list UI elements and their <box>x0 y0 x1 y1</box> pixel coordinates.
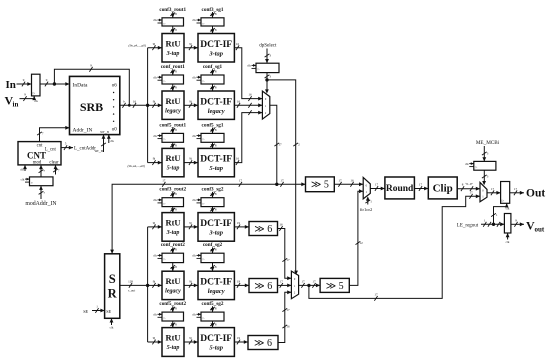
svg-text:16: 16 <box>236 157 240 161</box>
svg-text:16: 16 <box>286 325 290 329</box>
wire dpSelect into register <box>266 49 268 64</box>
block RtU 3-tap top <box>162 34 184 63</box>
wire Out output <box>510 192 524 194</box>
register conf5_sg2 <box>201 312 224 321</box>
svg-text:DCT-IF: DCT-IF <box>200 97 232 107</box>
register conf5_rout2 <box>162 312 184 321</box>
block DCT-IF 3-tap top <box>198 34 234 63</box>
svg-text:3-tap: 3-tap <box>166 230 180 236</box>
wire conf_rout2 into register <box>172 247 174 253</box>
register conf3_rout1 <box>162 18 184 26</box>
svg-text:19: 19 <box>237 221 241 225</box>
svg-text:16: 16 <box>236 42 240 46</box>
wire register conf5_rout1 to RtU <box>172 142 174 148</box>
wire conf5_sg1 into register <box>212 128 214 134</box>
wire DCT-IF 3-tap top to mux <box>234 48 262 99</box>
block shifter >>6 B3 <box>248 336 278 350</box>
block DCT-IF 5-tap top <box>198 148 234 176</box>
svg-text:clear: clear <box>49 160 59 165</box>
block shifter >>6 B1 <box>249 222 278 236</box>
svg-text:17: 17 <box>312 279 316 283</box>
wire conf3_sg2 into register <box>212 192 214 198</box>
svg-text:≫ 5: ≫ 5 <box>311 179 329 190</box>
wire register conf3_rout2 to RtU <box>172 207 174 213</box>
register ME_MCBi <box>474 161 496 170</box>
svg-text:17: 17 <box>514 187 518 191</box>
wire input bypass over SRB <box>54 69 129 105</box>
wire shifter5 second up to fir mux <box>349 191 363 285</box>
wire RtU to DCT-IF legacy top <box>184 104 198 106</box>
svg-text:9j: 9j <box>189 99 192 103</box>
svg-text:9j: 9j <box>153 99 156 103</box>
svg-text:clk: clk <box>153 198 157 202</box>
wire RtU to DCT-IF 5-tap top <box>184 162 198 164</box>
svg-text:17: 17 <box>375 183 379 187</box>
wire intermediate row to SR input <box>112 184 277 254</box>
svg-text:RtU: RtU <box>165 96 180 106</box>
svg-text:clk: clk <box>192 254 196 258</box>
svg-text:in: in <box>13 101 19 109</box>
svg-text:12: 12 <box>360 241 364 245</box>
svg-text:clk: clk <box>21 177 25 181</box>
block DCT-IF 3-tap bottom <box>198 213 234 242</box>
wire select to top mux <box>266 80 268 92</box>
svg-text:17: 17 <box>374 292 378 296</box>
register conf5_rout1 <box>162 133 184 142</box>
svg-text:clk: clk <box>192 313 196 317</box>
wire RtU to DCT-IF 3-tap bottom <box>184 226 198 228</box>
svg-text:17: 17 <box>286 308 290 312</box>
svg-text:In: In <box>6 79 16 91</box>
svg-text:out: out <box>535 225 545 233</box>
wire ME_MCBi into register <box>483 146 485 161</box>
wire dpSelect register to select node <box>266 73 268 80</box>
svg-text:16: 16 <box>350 178 354 182</box>
wire SE input <box>92 310 105 312</box>
block DCT-IF legacy top <box>198 91 234 119</box>
svg-text:9j: 9j <box>153 221 156 225</box>
svg-text:clk: clk <box>20 168 24 172</box>
block shifter >>5 second <box>320 278 349 292</box>
wire RtU to DCT-IF legacy bottom <box>184 284 198 286</box>
svg-text:clk: clk <box>110 326 114 330</box>
wire bus to RtU 5-tap bottom <box>148 341 162 343</box>
wire register conf5_rout2 to RtU <box>172 321 174 328</box>
svg-text:17: 17 <box>239 178 243 182</box>
svg-text:16: 16 <box>279 223 283 227</box>
wire register conf5_sg2 to DCT-IF <box>212 321 214 328</box>
svg-text:R: R <box>108 286 118 300</box>
wire DCT-IF 5-tap top to mux <box>234 113 262 163</box>
svg-text:5-tap: 5-tap <box>209 345 223 352</box>
wire RtU to DCT-IF 3-tap top <box>184 47 198 49</box>
svg-text:17: 17 <box>301 279 305 283</box>
svg-text:16: 16 <box>248 93 252 97</box>
svg-text:5-tap: 5-tap <box>167 345 180 351</box>
wire conf5_sg2 into register <box>212 306 214 312</box>
register conf_rout1 <box>162 75 184 84</box>
wire register conf_sg1 to DCT-IF <box>212 84 214 91</box>
svg-text:legacy: legacy <box>165 108 181 114</box>
wire shifter6 B1 to bottom mux <box>278 229 292 279</box>
wire Vout register clk <box>507 233 509 240</box>
svg-text:DCT-IF: DCT-IF <box>200 155 232 165</box>
wire junction to shifter 5 first <box>277 183 306 185</box>
svg-text:modAddr_IN: modAddr_IN <box>25 201 57 207</box>
svg-text:≫ 6: ≫ 6 <box>254 281 272 292</box>
svg-text:S: S <box>109 272 116 286</box>
mux M4 output mux <box>480 182 487 201</box>
wire fir mux to Round <box>370 188 385 190</box>
svg-text:3-tap: 3-tap <box>208 50 223 57</box>
wire register conf5_sg1 to DCT-IF <box>212 142 214 148</box>
register Out vertical <box>501 182 510 204</box>
svg-text:3-tap: 3-tap <box>208 229 223 236</box>
svg-text:cnt: cnt <box>37 143 44 148</box>
register conf_sg1 <box>201 75 224 84</box>
mux M1 top-half dpSelect mux <box>262 91 269 119</box>
register conf3_sg2 <box>201 198 224 207</box>
svg-text:conf5_rout1: conf5_rout1 <box>159 122 186 128</box>
wire Vin to input register <box>20 96 35 99</box>
wire top mux output down to shift row <box>270 105 277 184</box>
svg-text:≫ 6: ≫ 6 <box>254 338 272 349</box>
svg-text:Addr_IN: Addr_IN <box>73 127 93 133</box>
svg-text:legacy: legacy <box>165 288 181 294</box>
wire RtU to DCT-IF 5-tap bottom <box>184 341 198 343</box>
wire conf_sg2 into register <box>212 247 214 253</box>
block Clip <box>428 177 457 199</box>
block Round <box>385 177 415 199</box>
node LE junction <box>492 223 495 226</box>
svg-text:5-tap: 5-tap <box>209 165 223 172</box>
svg-text:conf3_rout2: conf3_rout2 <box>159 187 186 193</box>
svg-text:SE: SE <box>83 309 88 314</box>
svg-text:9j: 9j <box>189 157 192 161</box>
wire modAddr_IN input <box>40 186 42 199</box>
wire bottom mux output <box>299 284 321 286</box>
svg-text:9j: 9j <box>153 42 156 46</box>
node dpSelect junction <box>265 78 268 81</box>
wire input register to SRB InData <box>40 83 70 85</box>
wire Vout output <box>511 223 524 225</box>
svg-text:3-tap: 3-tap <box>166 51 180 57</box>
svg-text:legacy: legacy <box>208 288 225 295</box>
svg-text:dpSelect: dpSelect <box>259 43 277 48</box>
svg-text:17: 17 <box>419 183 423 187</box>
svg-text:CNT: CNT <box>27 150 46 160</box>
svg-text:clk: clk <box>192 18 196 22</box>
wire conf5_rout1 into register <box>172 128 174 134</box>
svg-text:clk: clk <box>247 64 251 68</box>
svg-text:17: 17 <box>491 187 495 191</box>
block SR shift registers <box>105 254 120 318</box>
wire bus to RtU 5-tap top <box>148 162 162 164</box>
svg-text:conf3_rout1: conf3_rout1 <box>159 7 186 13</box>
wire CNT L_cnt output L_cntAddr <box>61 147 73 149</box>
register conf_sg2 <box>201 253 224 262</box>
svg-text:RtU: RtU <box>165 153 180 163</box>
svg-text:ME_MCBi: ME_MCBi <box>476 140 500 146</box>
svg-text:16: 16 <box>237 99 241 103</box>
svg-text:o0: o0 <box>112 127 118 132</box>
wire register conf_sg2 to DCT-IF <box>212 263 214 272</box>
mux M2 bottom-half dpSelect mux <box>291 271 298 299</box>
register conf_rout2 <box>162 253 184 262</box>
wire fir1or2 select <box>367 198 369 205</box>
svg-text:clk: clk <box>192 198 196 202</box>
wire shifter6 B3 to bottom mux <box>278 292 291 342</box>
node bus junction bottom <box>146 284 149 287</box>
wire bypass to output mux <box>309 196 480 298</box>
wire DCT-IF legacy top to mux <box>234 104 262 106</box>
svg-text:LE_regout: LE_regout <box>457 224 479 229</box>
svg-text:L_cnt: L_cnt <box>45 147 57 152</box>
svg-text:SE: SE <box>106 309 111 314</box>
svg-text:InData: InData <box>73 82 89 88</box>
wire shifter6 B2 to bottom mux <box>278 284 292 286</box>
svg-text:conf3_sg1: conf3_sg1 <box>202 7 224 13</box>
svg-text:DCT-IF: DCT-IF <box>200 219 232 229</box>
wire DCT-IF to shifter6 B3 <box>234 341 248 343</box>
wire bus to RtU 3-tap bottom <box>148 226 162 228</box>
wire conf3_rout2 into register <box>172 192 174 198</box>
svg-text:legacy: legacy <box>208 108 225 115</box>
svg-text:RtU: RtU <box>165 333 180 343</box>
block DCT-IF legacy bottom <box>198 271 234 299</box>
svg-text:16: 16 <box>133 99 137 103</box>
svg-text:RtU: RtU <box>165 38 180 48</box>
svg-text:r_out: r_out <box>128 288 136 292</box>
block RtU 3-tap bottom <box>162 213 184 242</box>
block RtU legacy top <box>162 91 184 119</box>
svg-text:RtU: RtU <box>165 217 180 227</box>
svg-text:SRB: SRB <box>80 100 103 114</box>
wire register conf_rout1 to RtU <box>172 84 174 91</box>
register modAddr <box>30 177 54 186</box>
svg-text:19: 19 <box>237 336 241 340</box>
svg-text:19: 19 <box>237 279 241 283</box>
wire Out register enable <box>494 203 507 224</box>
wire shifter5 to fir mux input0 <box>334 183 363 185</box>
mux M3 fir1or2 mux <box>363 177 370 199</box>
svg-text:wr_n: wr_n <box>100 129 109 134</box>
svg-text:clk: clk <box>153 18 157 22</box>
svg-text:o6: o6 <box>112 83 118 88</box>
svg-text:clk: clk <box>192 134 196 138</box>
block SRB <box>70 76 120 134</box>
wire CNT clk stub <box>24 165 26 171</box>
input register (In/Vin) <box>32 74 41 96</box>
svg-text:“0..0”: “0..0” <box>465 181 474 186</box>
wire DCT-IF to shifter6 B1 <box>234 226 249 228</box>
svg-text:9j: 9j <box>189 42 192 46</box>
register conf5_sg1 <box>201 133 224 142</box>
svg-text:clk: clk <box>192 75 196 79</box>
node intermediate row junction <box>275 183 278 186</box>
block RtU legacy bottom <box>162 271 184 299</box>
svg-text:≫ 6: ≫ 6 <box>254 224 272 235</box>
wire select to bottom mux <box>267 80 296 273</box>
wire In to input register <box>17 83 32 85</box>
wire CNT clear input <box>55 165 57 175</box>
svg-text:17: 17 <box>280 279 284 283</box>
wire register conf3_sg2 to DCT-IF <box>212 207 214 213</box>
block RtU 5-tap bottom <box>162 328 184 357</box>
svg-text:Clip: Clip <box>433 183 453 195</box>
svg-text:128: 128 <box>128 279 133 283</box>
wire Clip to output mux <box>457 188 480 190</box>
svg-text:DCT-IF: DCT-IF <box>200 40 232 50</box>
svg-text:Out: Out <box>526 188 545 200</box>
wire DCT-IF to shifter6 B2 <box>234 284 249 286</box>
wire SRB output to bus <box>120 104 148 106</box>
svg-text:clk: clk <box>153 75 157 79</box>
node bottom mux output junction <box>307 284 310 287</box>
svg-text:conf_sg1: conf_sg1 <box>203 64 223 70</box>
svg-text:≫ 5: ≫ 5 <box>326 281 344 292</box>
wire vertical bus top half <box>147 48 149 163</box>
wire bus to RtU legacy top <box>148 104 162 106</box>
wire register conf_rout2 to RtU <box>172 263 174 272</box>
svg-text:17: 17 <box>286 258 290 262</box>
wire conf3_rout1 into register <box>172 12 174 18</box>
svg-text:conf_sg2: conf_sg2 <box>203 242 223 248</box>
svg-text:conf_rout1: conf_rout1 <box>161 64 186 70</box>
wire LE_regout to Vout register <box>481 223 504 225</box>
wire ME register to output mux select <box>483 170 485 183</box>
svg-text:5-tap: 5-tap <box>167 166 180 172</box>
svg-text:DCT-IF: DCT-IF <box>200 334 232 344</box>
block RtU 5-tap top <box>162 148 184 176</box>
wire conf_rout1 into register <box>172 69 174 75</box>
svg-text:clk: clk <box>153 134 157 138</box>
svg-text:mod: mod <box>33 160 42 165</box>
wire SR clk stub <box>111 318 113 325</box>
svg-text:Round: Round <box>386 184 414 194</box>
svg-text:9j: 9j <box>189 221 192 225</box>
register dpSelect <box>256 63 279 72</box>
svg-text:9j: 9j <box>189 336 192 340</box>
svg-text:clk: clk <box>465 162 469 166</box>
svg-text:9j: 9j <box>153 336 156 340</box>
svg-text:conf5_rout2: conf5_rout2 <box>159 301 186 307</box>
svg-text:clk: clk <box>110 139 114 143</box>
svg-text:9j: 9j <box>153 157 156 161</box>
wire register conf3_sg1 to DCT-IF <box>212 26 214 34</box>
wire SR output to bottom bus <box>120 284 148 286</box>
register conf3_sg1 <box>201 18 224 26</box>
svg-text:conf5_sg1: conf5_sg1 <box>202 122 224 128</box>
block CNT counter <box>18 142 61 165</box>
svg-text:17: 17 <box>280 178 284 182</box>
svg-text:conf_rout2: conf_rout2 <box>161 242 186 248</box>
svg-text:conf5_sg2: conf5_sg2 <box>202 301 224 307</box>
register Vout vertical <box>504 214 511 234</box>
svg-text:clk: clk <box>153 313 157 317</box>
wire Round to Clip <box>414 188 428 190</box>
svg-text:17: 17 <box>338 178 342 182</box>
svg-text:fir1or2: fir1or2 <box>360 207 373 212</box>
wire bus to RtU legacy bottom <box>148 284 162 286</box>
wire SRB wr_n input <box>103 135 105 152</box>
svg-text:9j: 9j <box>153 279 156 283</box>
wire CNT mod input <box>40 165 42 177</box>
svg-text:DCT-IF: DCT-IF <box>200 277 232 287</box>
svg-text:clk: clk <box>506 240 510 244</box>
node input junction <box>53 82 56 85</box>
wire register conf3_rout1 to RtU <box>172 26 174 34</box>
svg-text:17: 17 <box>278 143 282 147</box>
svg-text:L_cntAddr: L_cntAddr <box>74 147 96 152</box>
block shifter >>5 first <box>306 177 335 192</box>
svg-text:9j: 9j <box>189 279 192 283</box>
svg-text:conf3_sg2: conf3_sg2 <box>202 187 224 193</box>
wire CNT cnt to SRB Addr_IN <box>40 128 70 142</box>
wire conf5_rout2 into register <box>172 306 174 312</box>
block DCT-IF 5-tap bottom <box>198 328 234 357</box>
svg-text:clk: clk <box>153 254 157 258</box>
register conf3_rout2 <box>162 198 184 207</box>
wire SRB clk input <box>108 135 110 143</box>
wire conf_sg1 into register <box>212 69 214 75</box>
wire vertical bus bottom half <box>147 227 149 342</box>
node bus junction top <box>146 104 149 107</box>
svg-text:17: 17 <box>162 178 166 182</box>
block shifter >>6 B2 <box>249 279 278 293</box>
wire conf3_sg1 into register <box>212 12 214 18</box>
wire output mux to Out register <box>487 192 501 194</box>
svg-text:RtU: RtU <box>165 276 180 286</box>
wire bus to RtU 3-tap top <box>148 47 162 49</box>
